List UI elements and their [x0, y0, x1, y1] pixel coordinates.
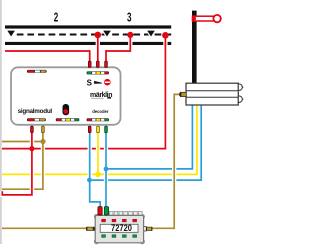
signal arm	[192, 15, 221, 22]
decoder red LEDs	[102, 219, 137, 222]
module S lever icon	[87, 78, 111, 87]
track rail 2 (outer)	[5, 42, 171, 45]
wire red module branch	[2, 123, 32, 195]
module top plug 1	[88, 61, 91, 67]
wire yellow main	[2, 106, 197, 175]
decoder left pin	[86, 227, 95, 231]
junction blue B	[104, 167, 109, 172]
decoder green LEDs	[102, 235, 137, 238]
wire blue signal 1	[106, 106, 192, 169]
module connector block top-right	[87, 71, 109, 74]
contact triangle section 3 left	[103, 31, 111, 37]
track rail 1 (outer)	[5, 25, 171, 28]
track contact dot 2	[95, 32, 102, 39]
contact triangle section 3 right	[147, 31, 155, 37]
module connector block bottom-middle	[56, 118, 80, 121]
track contact dot 3 left	[127, 32, 133, 38]
wire yellow module pin	[96, 123, 100, 174]
module connector block bottom-left	[27, 118, 46, 121]
track center conductor (dashed)	[14, 34, 171, 36]
wire red track contact 3 to module pin 3	[106, 35, 130, 63]
module bottom plug green	[105, 126, 108, 133]
left border line	[0, 0, 2, 244]
signal mast	[192, 11, 197, 84]
module top plug 3	[105, 61, 108, 67]
wire blue signal 2	[90, 106, 202, 181]
module bottom plug brown	[42, 126, 45, 133]
wire blue module pin A to decoder	[90, 123, 101, 210]
module connector block top-left	[27, 70, 47, 73]
wire blue module pin B to decoder	[104, 123, 108, 210]
signal module U1 box	[11, 67, 121, 125]
module maerklin logo	[90, 92, 112, 99]
track contact dot 3 right	[162, 32, 169, 39]
wire brown signal to decoder	[152, 94, 182, 228]
module signal pictogram	[63, 104, 70, 115]
module bottom plug yellow	[97, 126, 100, 133]
svg-text:3: 3	[127, 11, 131, 25]
wire red feed to module pin 1	[5, 51, 90, 63]
junction brown	[40, 139, 45, 144]
svg-text:decoder: decoder	[92, 109, 109, 114]
signal base box	[186, 83, 243, 105]
module connector block bottom-right	[87, 118, 109, 121]
wire brown horizontal upper	[2, 141, 43, 143]
decoder corner lugs	[94, 214, 144, 244]
junction red	[29, 146, 34, 151]
signal base left pin	[179, 92, 186, 96]
decoder right pin	[144, 227, 153, 231]
junction yellow	[95, 172, 101, 178]
module bottom plug red right	[88, 126, 91, 133]
decoder plug green	[104, 207, 108, 215]
label 3	[127, 11, 131, 25]
decoder plug red	[98, 207, 102, 215]
junction blue A	[87, 178, 92, 183]
wire red main horizontal to track contact right	[2, 35, 165, 148]
decoder 72720 box	[95, 215, 143, 242]
wire red track contact 2 to module pin 2	[96, 35, 100, 63]
svg-text:S: S	[87, 78, 92, 87]
wire brown decoder left	[2, 227, 91, 229]
decoder label 72720	[100, 222, 138, 233]
module top plug 2	[96, 61, 99, 67]
decoder teeth	[109, 211, 142, 215]
svg-text:signalmodul: signalmodul	[18, 108, 53, 115]
svg-text:2: 2	[54, 11, 58, 25]
label 2	[54, 11, 58, 25]
wire brown module branch	[2, 123, 43, 189]
contact triangle section 2	[7, 31, 15, 37]
module bottom plug red left	[31, 126, 34, 133]
svg-text:72720: 72720	[111, 222, 132, 233]
